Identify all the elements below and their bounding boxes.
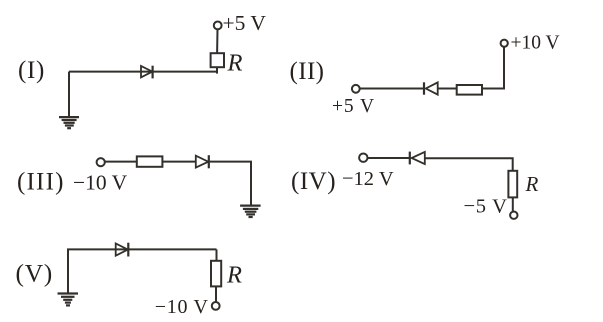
wire ground to top corner (V) bbox=[68, 249, 217, 292]
terminal -10 V circuit III bbox=[97, 158, 105, 166]
svg-text:R: R bbox=[226, 262, 242, 289]
ground circuit I bbox=[59, 117, 79, 128]
svg-text:(III): (III) bbox=[17, 169, 65, 196]
svg-text:R: R bbox=[227, 49, 243, 76]
wire terminal to diode (IV) bbox=[368, 157, 411, 159]
terminal -10 V circuit V bbox=[212, 302, 220, 310]
svg-text:(IV): (IV) bbox=[291, 168, 336, 195]
svg-text:(V): (V) bbox=[16, 259, 54, 288]
resistor circuit III bbox=[137, 156, 163, 166]
wire from +5V terminal to resistor R (I) bbox=[216, 29, 218, 53]
terminal +5 V circuit II bbox=[352, 85, 360, 93]
wire resistor to terminal (IV) bbox=[512, 197, 514, 211]
terminal +5 V circuit I bbox=[214, 22, 222, 30]
wire diode to corner and down to resistor (IV) bbox=[425, 158, 513, 171]
resistor R circuit I bbox=[211, 53, 224, 67]
svg-text:(II): (II) bbox=[290, 58, 325, 85]
wire resistor bottom stub (I) bbox=[216, 67, 218, 73]
svg-text:−12 V: −12 V bbox=[342, 168, 394, 190]
wire vertical to ground (I) bbox=[68, 72, 70, 117]
ground circuit III bbox=[240, 206, 261, 217]
diode D4 circuit IV (pointing left) bbox=[410, 152, 425, 165]
wire terminal to resistor (III) bbox=[105, 161, 137, 163]
svg-text:+5 V: +5 V bbox=[332, 96, 375, 117]
ground circuit V bbox=[58, 294, 79, 306]
wire resistor to diode (III) bbox=[162, 161, 195, 163]
resistor R circuit IV bbox=[508, 171, 517, 198]
diode D5 circuit V bbox=[116, 243, 129, 257]
resistor R circuit V bbox=[211, 261, 221, 287]
wire resistor to corner and up (II) bbox=[482, 47, 504, 89]
wire terminal to diode (II) bbox=[360, 88, 424, 90]
svg-text:+5 V: +5 V bbox=[223, 11, 267, 35]
wire resistor to terminal (V) bbox=[215, 286, 217, 302]
resistor circuit II bbox=[457, 85, 482, 95]
wire diode to corner and down (III) bbox=[209, 162, 251, 205]
svg-text:R: R bbox=[525, 172, 539, 196]
wire corner down to resistor (V) bbox=[216, 249, 218, 260]
diode D3 circuit III bbox=[196, 155, 209, 168]
diode D2 circuit II (pointing left) bbox=[424, 82, 438, 94]
svg-text:−10 V: −10 V bbox=[73, 170, 128, 194]
wire diode to resistor (II) bbox=[438, 88, 457, 90]
diode D1 circuit I bbox=[141, 66, 153, 79]
terminal -12 V circuit IV bbox=[359, 154, 367, 162]
terminal -5 V circuit IV bbox=[510, 212, 517, 219]
svg-text:−10 V: −10 V bbox=[155, 296, 209, 318]
svg-text:(I): (I) bbox=[18, 57, 45, 84]
svg-text:+10 V: +10 V bbox=[511, 33, 560, 54]
wire horizontal (I) bbox=[69, 71, 217, 73]
svg-text:−5 V: −5 V bbox=[464, 195, 508, 217]
terminal +10 V circuit II bbox=[501, 40, 508, 47]
